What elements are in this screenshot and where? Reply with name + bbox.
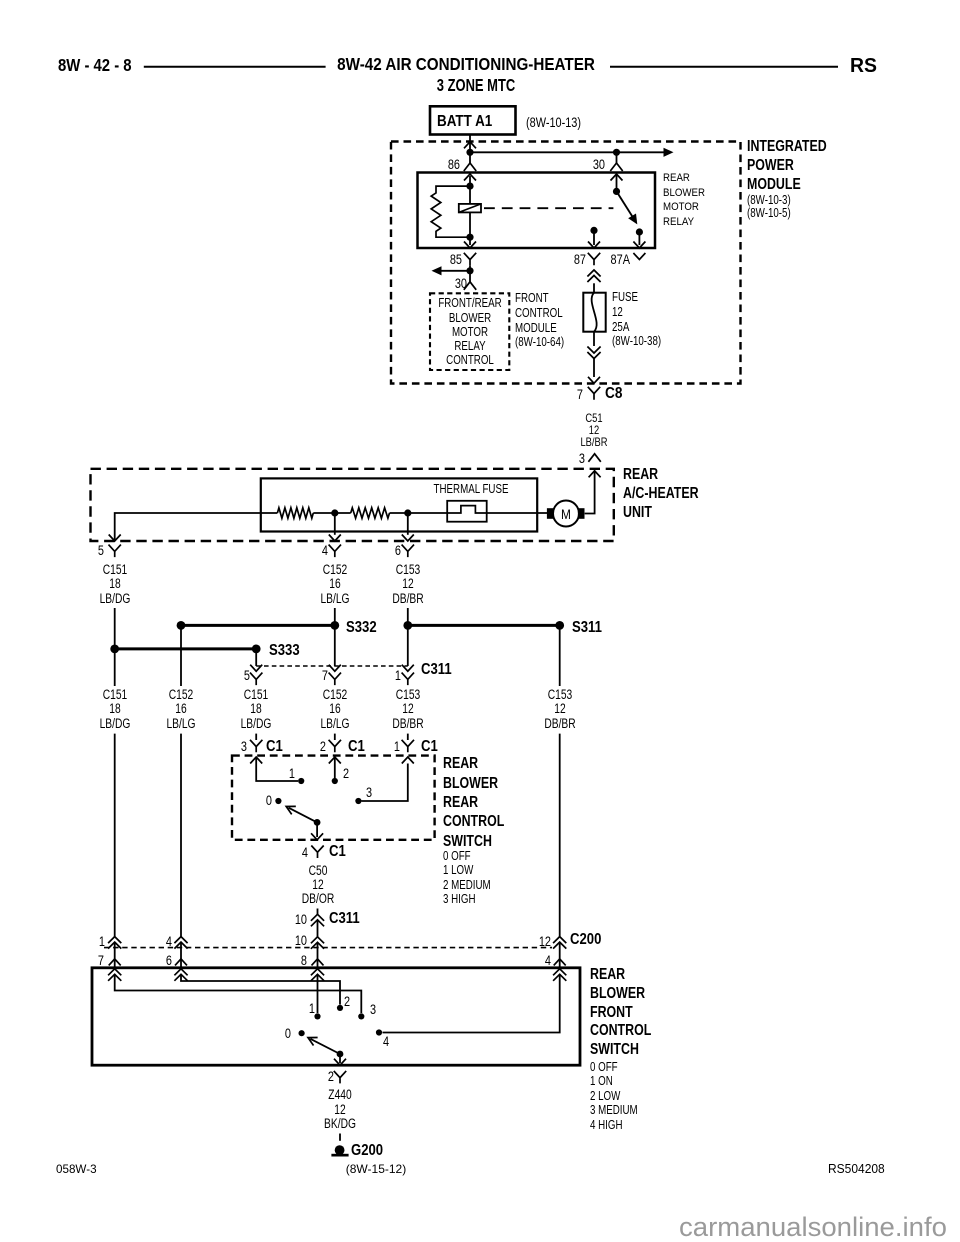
- ground G200 symbol dot: [335, 1145, 345, 1155]
- rear switch wiper arm: [289, 808, 318, 823]
- connector C200 pin 7 lower chevron: [109, 959, 121, 966]
- wire relay 85 down: [469, 265, 471, 271]
- wire power feed to right: [470, 151, 664, 153]
- splice S311 node right: [555, 621, 564, 630]
- splice S333 bus: [115, 647, 257, 650]
- relay coil stem lower: [469, 212, 471, 237]
- rear control switch dashed box: [232, 756, 435, 840]
- wire C200 pin8 stem: [317, 943, 319, 959]
- label: ground ref (8W-15-12): [346, 1163, 406, 1175]
- label: pin number 10 (C311 upper): [295, 912, 307, 926]
- label: splice name S311: [572, 620, 602, 636]
- connector C311 pin 5 upper chevron: [250, 665, 262, 672]
- wire colA S333 down: [114, 649, 116, 686]
- label: pin number 1 (C1): [394, 739, 400, 753]
- wire colD to S332: [334, 608, 336, 625]
- rear switch contact 0: [275, 798, 281, 804]
- label: IPM name INTEGRATED POWER MODULE: [747, 137, 827, 195]
- rear switch wiper node: [314, 819, 321, 826]
- wire colF S311 down: [559, 625, 561, 686]
- connector C311 pin10 upper double chevron: [311, 914, 324, 926]
- front switch pin8 wire: [317, 974, 319, 1013]
- label: motor letter M: [561, 507, 571, 521]
- label: wire label C152 16 LB/LG (colB): [166, 688, 195, 731]
- label: unit name REAR A/C-HEATER UNIT: [623, 465, 699, 523]
- relay node coil top: [466, 183, 473, 190]
- connector C1 pin2 fork: [329, 740, 341, 753]
- splice S332 bus: [181, 624, 335, 627]
- connector C1 pin4 fork: [311, 846, 323, 859]
- front switch contact 2: [337, 1005, 343, 1011]
- label: pin number 4 (unit): [321, 543, 327, 557]
- label: wire label C51 12 LB/BR: [580, 412, 607, 449]
- wire colC to C1: [255, 734, 257, 740]
- thermal fuse element: [447, 506, 487, 513]
- label: pin number 1 (C311): [395, 668, 401, 682]
- relay linkage dashed line: [484, 207, 613, 209]
- connector C200 pin 6 lower chevron: [175, 959, 187, 966]
- label: pin number 7 (C311): [322, 668, 328, 682]
- connector pin 86 stem: [469, 152, 471, 163]
- front control switch box: [92, 968, 580, 1065]
- label: pin number 3 (rear unit): [579, 451, 585, 465]
- label: wire label C152 16 LB/LG (colD): [320, 688, 349, 731]
- node relay control branch: [466, 267, 473, 274]
- label: wire label C153 12 DB/BR (colE): [392, 688, 423, 731]
- label: pin number 7 (C200): [97, 953, 103, 967]
- connector C311 pin 7 lower fork: [329, 673, 341, 686]
- wire colE S311 down: [407, 625, 409, 666]
- wire C200 pin 1 stem: [114, 943, 116, 959]
- label: pin number 6 (C200): [166, 953, 172, 967]
- label: wire label C151 18 LB/DG (pin5): [99, 563, 130, 606]
- rear switch pin1 entry arrow: [402, 757, 414, 764]
- label: connector name C1 (pin3): [266, 739, 283, 755]
- wire colA to S333: [114, 608, 116, 649]
- wire colD to C1: [334, 734, 336, 740]
- wire colC S333 down: [255, 649, 257, 666]
- relay node contact common: [613, 188, 620, 195]
- label: wire label C151 18 LB/DG (colA): [99, 688, 130, 731]
- label: pin number 2 (C1): [320, 739, 326, 753]
- wire fuse to C8: [593, 359, 595, 378]
- label: connector name C1 (pin2): [348, 739, 365, 755]
- wire colD S332 down: [334, 625, 336, 666]
- relay suppression resistor: [431, 186, 470, 237]
- fuse F12 box: [583, 293, 605, 332]
- rear switch output stem: [316, 822, 318, 837]
- relay node coil bottom: [466, 234, 473, 241]
- front switch wiper arm: [310, 1039, 340, 1054]
- rear switch output exit arrow (down): [311, 833, 323, 840]
- label: wire label C152 16 LB/LG (pin4): [320, 563, 349, 606]
- connector pin 6 fork: [402, 545, 414, 558]
- connector pin 87A chevron: [633, 253, 645, 260]
- fuse F12 element: [592, 293, 597, 332]
- connector pin 30 stem: [616, 152, 618, 163]
- relay coil element: [459, 204, 481, 213]
- label: pin number 2 (Z440): [328, 1069, 334, 1083]
- label: pin number 1 (C200): [99, 934, 105, 948]
- wire colE to C1: [407, 734, 409, 740]
- label: contact number 4 (front switch): [383, 1034, 389, 1048]
- connector C1 pin1 fork: [402, 740, 414, 753]
- connector C200 pin 4 upper double chevron: [174, 937, 187, 949]
- relay pin 87A exit arrow: [638, 232, 640, 245]
- label: footer sheet number 058W-3: [56, 1163, 97, 1175]
- label: contact number 3 (front switch): [370, 1002, 376, 1016]
- label: contact number 1 (front switch): [309, 1001, 315, 1015]
- relay pin 86 entry arrow: [464, 174, 476, 181]
- wire tap2 down: [407, 513, 409, 535]
- label: relay name REAR BLOWER MOTOR RELAY: [663, 171, 705, 229]
- label: watermark carmanualsonline.info: [679, 1214, 947, 1241]
- label: pin number 87: [573, 252, 585, 266]
- wire DB/OR to C311: [317, 909, 319, 915]
- blower motor terminal left: [547, 508, 554, 519]
- label: pin number 8 (C200): [301, 953, 307, 967]
- label: front control module label: [515, 291, 564, 349]
- splice S311 node left: [403, 621, 412, 630]
- splice S311 bus: [408, 624, 560, 627]
- integrated power module dashed box: [391, 142, 741, 384]
- connector C200 dashed line: [104, 947, 552, 949]
- front switch wiper node: [337, 1051, 344, 1058]
- label: pin number 85: [450, 252, 462, 266]
- label: pin number 4 (C200 upper): [166, 934, 172, 948]
- wire C200 pin 12 stem: [559, 943, 561, 959]
- label: pin number 86: [448, 157, 460, 171]
- label: contact number 2 (front switch): [344, 994, 350, 1008]
- wire tap2 to thermal fuse: [390, 512, 448, 514]
- relay node contact 87: [590, 227, 597, 234]
- splice S332 node right: [330, 621, 339, 630]
- wire C200 pin 7 to switch: [114, 959, 116, 968]
- label: thermal fuse label: [434, 483, 509, 496]
- label: header title 8W-42 AIR CONDITIONING-HEATER: [337, 56, 595, 74]
- wire thermal fuse to motor: [487, 512, 547, 514]
- front switch output stem: [339, 1054, 341, 1063]
- relay coil top stem: [469, 176, 471, 186]
- label: wire label C153 12 DB/BR (pin6): [392, 563, 423, 606]
- connector pin 87 fork: [588, 253, 600, 265]
- header rule left: [144, 66, 326, 68]
- rear a/c-heater unit dashed box: [91, 469, 614, 541]
- connector pin 3 fork: [588, 454, 600, 462]
- front switch output exit arrow (down): [334, 1059, 346, 1066]
- arrow exit unit pin6 (down): [402, 535, 414, 542]
- connector C200 pin10 upper double chevron: [311, 937, 324, 949]
- front switch pin6 wire: [181, 974, 340, 1005]
- wire between resistors: [313, 512, 350, 514]
- label: connector name C1 (pin1): [421, 739, 438, 755]
- label: reference (8W-10-13): [526, 115, 581, 129]
- connector C311 pin 1 lower fork: [402, 673, 414, 686]
- relay pin 87 exit arrow: [593, 230, 595, 245]
- connector pin 30 fork (FCM): [469, 271, 471, 282]
- front switch pin 6 entry double chevron: [174, 969, 187, 981]
- blower motor terminal right: [578, 508, 585, 519]
- label: splice name S332: [346, 620, 377, 636]
- label: switch name REAR BLOWER REAR CONTROL SWITCH: [443, 754, 504, 850]
- connector below fuse double chevron down: [587, 347, 600, 359]
- arrow exit unit pin4 (down): [329, 535, 341, 542]
- splice S332 node left: [177, 621, 186, 630]
- node resistor tap 1: [331, 509, 338, 516]
- label: pin number 87A: [610, 252, 629, 266]
- label: ground name G200: [351, 1143, 383, 1159]
- label: switch name REAR BLOWER FRONT CONTROL SWITCH: [590, 966, 651, 1060]
- wire tap1 down: [334, 513, 336, 535]
- wire C200 pin8 to switch: [317, 959, 319, 968]
- front/rear blower motor relay control dashed box: [430, 293, 509, 370]
- connector C200 pin8 lower chevron: [312, 959, 324, 966]
- rear switch pin3 wire: [256, 757, 298, 781]
- label: switch legend 0 OFF 1 ON 2 LOW 3 MEDIUM 4 HIGH: [590, 1060, 638, 1132]
- arrow into IPM (up): [464, 142, 476, 149]
- relay coil stem upper: [469, 186, 471, 204]
- relay pin 30 entry arrow: [611, 174, 623, 181]
- wire col 4/6 into C200: [180, 734, 182, 937]
- connector C200 pin 4 lower chevron: [554, 959, 566, 966]
- label: header subtitle 3 ZONE MTC: [437, 77, 515, 95]
- front switch contact 3: [358, 1013, 364, 1019]
- relay contact common stem: [616, 174, 618, 191]
- arrow power feed right: [664, 148, 674, 157]
- label: pin number 6 (unit): [394, 543, 400, 557]
- connector pin 5 fork: [109, 545, 121, 558]
- label: connector name C311: [421, 662, 452, 678]
- label: wire label C50 12 DB/OR: [301, 864, 334, 907]
- connector pin 30 fork: [610, 163, 622, 171]
- battery feed box BATT A1: [430, 106, 516, 134]
- label: contact number 1 (rear switch): [289, 766, 295, 780]
- label: pin number 5 (C311): [244, 668, 250, 682]
- splice S333 node left: [110, 645, 119, 654]
- arrow pin3 into unit (up): [589, 471, 601, 478]
- front switch pin 7 entry double chevron: [108, 969, 121, 981]
- connector C200 pin 12 upper double chevron: [553, 937, 566, 949]
- arrow exit unit pin5 (down): [109, 535, 121, 542]
- label: pin number 7 (C8): [577, 387, 583, 401]
- wire battery A1 down: [469, 135, 471, 153]
- wire col 1/7 into C200: [114, 734, 116, 937]
- label: switch legend 0 OFF 1 LOW 2 MEDIUM 3 HIGH: [443, 849, 491, 907]
- connector pin 86 fork: [464, 163, 476, 171]
- label: pin number 30 (front control module): [455, 276, 467, 290]
- label: pin number 10 (C200 upper): [295, 933, 307, 947]
- connector C311 pin 1 upper chevron: [402, 665, 414, 672]
- label: IPM refs (8W-10-3)(8W-10-5): [747, 194, 791, 221]
- wire C311 pin10 link: [317, 921, 319, 937]
- label: pin number 30: [593, 157, 605, 171]
- wire C200 pin 4 stem: [180, 943, 182, 959]
- label: wire label C151 18 LB/DG (colC): [241, 688, 272, 731]
- label: connector name C311 (pin10): [329, 911, 360, 927]
- rear blower motor relay box: [418, 173, 656, 249]
- front switch contact 1: [314, 1013, 320, 1019]
- wire colE to S311: [407, 608, 409, 625]
- front switch contact 0: [299, 1030, 305, 1036]
- label: fuse label FUSE 12 25A (8W-10-38): [612, 290, 661, 349]
- label: connector name C1 (pin4): [329, 844, 346, 860]
- label: connector name C8: [605, 386, 622, 402]
- arrow to front control module (left): [432, 266, 442, 275]
- wire colB S332 down: [180, 625, 182, 686]
- front switch contact 4: [376, 1029, 382, 1035]
- rear switch pin2 wire: [334, 757, 336, 778]
- thermal fuse box: [447, 501, 487, 522]
- label: wire label Z440 12 BK/DG: [324, 1088, 356, 1131]
- relay pin 85 exit arrow: [469, 237, 471, 245]
- ground G200 symbol bar: [331, 1154, 348, 1157]
- connector C8 fork: [588, 387, 600, 400]
- blower resistor element 1: [277, 508, 313, 518]
- front switch pin4 wire: [383, 974, 560, 1033]
- wire branch to front control module: [441, 270, 470, 272]
- wire unit feed left segment: [115, 513, 278, 541]
- node resistor tap 2: [404, 509, 411, 516]
- connector C311 pin 5 lower fork: [250, 673, 262, 686]
- arrow exit IPM (down): [588, 377, 600, 384]
- header rule right: [610, 66, 838, 68]
- connector C1 pin3 fork: [250, 740, 262, 753]
- blower resistor block box: [261, 478, 537, 531]
- label: BATT A1 text: [437, 114, 492, 130]
- label: pin number 12 (C200): [539, 934, 551, 948]
- wire below fuse: [593, 332, 595, 346]
- label: front/rear blower motor relay control text: [438, 296, 501, 367]
- blower resistor element 2: [351, 508, 390, 518]
- rear switch pin3 entry arrow: [250, 757, 262, 764]
- label: pin number 4 (C1 out): [302, 845, 308, 859]
- label: contact number 0 (front switch): [285, 1026, 291, 1040]
- label: contact number 0 (rear switch): [266, 793, 272, 807]
- connector C311 pin 7 upper chevron: [329, 665, 341, 672]
- node pin30 feed junction: [613, 149, 620, 156]
- relay contact armature: [617, 191, 636, 221]
- connector 87 double chevron: [587, 270, 600, 282]
- label: pin number 5: [97, 543, 103, 557]
- label: pin number 3 (C1): [241, 739, 247, 753]
- label: connector name C200: [570, 932, 601, 948]
- rear switch contact 3: [355, 798, 361, 804]
- front switch pin7 wire: [115, 974, 362, 1013]
- relay node contact 87A: [636, 228, 643, 235]
- connector pin 2 fork (Z440): [334, 1071, 346, 1084]
- rear switch pin1 wire: [362, 764, 408, 802]
- label: contact number 2 (rear switch): [343, 766, 349, 780]
- node battery feed junction: [466, 149, 473, 156]
- connector pin 85 fork: [464, 253, 476, 265]
- wire pin3 to motor: [585, 471, 595, 514]
- front switch wiper arrowhead: [306, 1034, 318, 1046]
- wire col 12/4 into C200: [559, 734, 561, 937]
- front switch pin 4 entry double chevron: [553, 969, 566, 981]
- connector pin 4 fork: [329, 545, 341, 558]
- wire 87 to fuse: [593, 283, 595, 292]
- rear switch wiper arrowhead: [284, 802, 296, 814]
- label: header RS: [850, 56, 877, 76]
- label: wire label C153 12 DB/BR (colF): [544, 688, 575, 731]
- rear switch pin2 entry arrow: [329, 757, 341, 764]
- front switch pin 8 entry double chevron: [311, 969, 324, 981]
- label: pin number 4 (C200 lower): [545, 953, 551, 967]
- splice S333 node right: [252, 645, 261, 654]
- rear switch contact 2: [332, 778, 338, 784]
- wire C200 pin 4 to switch: [559, 959, 561, 968]
- wire C200 pin 6 to switch: [180, 959, 182, 968]
- wire Z440 to ground: [339, 1134, 341, 1141]
- connector C200 pin 1 upper double chevron: [108, 937, 121, 949]
- label: splice name S333: [269, 643, 300, 659]
- rear switch contact 1: [298, 778, 304, 784]
- connector C311 dashed line: [256, 665, 408, 667]
- label: footer code RS504208: [828, 1163, 885, 1175]
- label: header page number 8W - 42 - 8: [58, 57, 132, 75]
- label: contact number 3 (rear switch): [366, 785, 372, 799]
- blower motor M1: [553, 501, 579, 527]
